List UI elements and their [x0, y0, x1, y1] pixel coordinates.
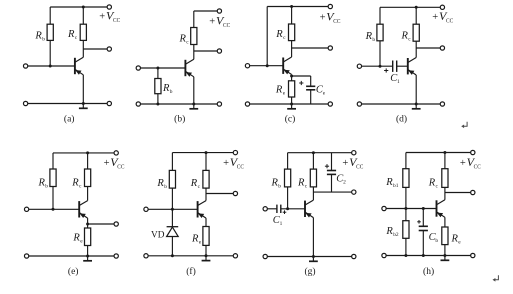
- svg-text:(g): (g): [304, 266, 315, 277]
- svg-text:(c): (c): [285, 114, 296, 125]
- svg-text:b: b: [372, 37, 375, 43]
- svg-text:R: R: [156, 178, 164, 189]
- svg-text:+: +: [342, 158, 348, 169]
- svg-text:R: R: [190, 178, 198, 189]
- svg-text:R: R: [297, 178, 305, 189]
- svg-text:c: c: [408, 37, 411, 43]
- svg-text:b: b: [164, 184, 167, 190]
- svg-text:+: +: [320, 12, 326, 23]
- svg-text:CC: CC: [474, 164, 481, 171]
- svg-text:R: R: [72, 232, 80, 243]
- svg-text:+: +: [104, 158, 110, 169]
- svg-text:CC: CC: [113, 17, 120, 24]
- svg-text:R: R: [275, 29, 283, 40]
- svg-text:(h): (h): [423, 266, 434, 277]
- svg-text:CC: CC: [117, 164, 124, 171]
- svg-text:R: R: [71, 178, 79, 189]
- svg-text:b: b: [45, 184, 48, 190]
- svg-text:b: b: [435, 238, 438, 244]
- svg-text:CC: CC: [446, 18, 453, 25]
- svg-text:R: R: [275, 85, 283, 96]
- svg-text:e: e: [458, 239, 461, 245]
- svg-text:b: b: [42, 37, 45, 43]
- svg-text:R: R: [271, 178, 279, 189]
- svg-text:CC: CC: [237, 164, 244, 171]
- svg-text:c: c: [283, 35, 286, 41]
- svg-text:1: 1: [397, 79, 400, 85]
- svg-text:+: +: [209, 17, 215, 28]
- svg-text:+: +: [432, 12, 438, 23]
- svg-text:+: +: [460, 158, 466, 169]
- svg-text:R: R: [191, 233, 199, 244]
- svg-text:b2: b2: [393, 232, 399, 238]
- svg-text:b: b: [278, 184, 281, 190]
- svg-text:c: c: [79, 184, 82, 190]
- svg-text:R: R: [451, 233, 459, 244]
- svg-text:R: R: [162, 83, 170, 94]
- svg-text:R: R: [365, 31, 373, 42]
- svg-text:e: e: [323, 91, 326, 97]
- svg-text:+: +: [223, 158, 229, 169]
- svg-text:(b): (b): [174, 114, 185, 125]
- svg-text:VD: VD: [151, 231, 165, 241]
- svg-text:c: c: [75, 35, 78, 41]
- svg-text:(f): (f): [186, 266, 196, 277]
- svg-text:(d): (d): [396, 114, 407, 125]
- svg-text:e: e: [80, 238, 83, 244]
- svg-text:CC: CC: [333, 18, 340, 25]
- svg-text:R: R: [38, 178, 46, 189]
- svg-text:R: R: [385, 177, 393, 188]
- svg-text:b: b: [170, 89, 173, 95]
- svg-text:b1: b1: [393, 183, 399, 189]
- svg-text:e: e: [283, 91, 286, 97]
- svg-text:R: R: [67, 29, 75, 40]
- svg-text:R: R: [428, 178, 436, 189]
- svg-text:(e): (e): [68, 266, 79, 277]
- svg-text:R: R: [385, 226, 393, 237]
- svg-text:R: R: [179, 34, 187, 45]
- svg-text:(a): (a): [64, 114, 75, 125]
- svg-text:2: 2: [343, 180, 346, 186]
- svg-text:+: +: [99, 11, 105, 22]
- svg-text:R: R: [401, 31, 409, 42]
- svg-text:c: c: [305, 184, 308, 190]
- svg-text:CC: CC: [223, 22, 230, 29]
- svg-text:CC: CC: [356, 164, 363, 171]
- svg-text:e: e: [199, 239, 202, 245]
- svg-text:R: R: [34, 31, 42, 42]
- svg-text:c: c: [186, 40, 189, 46]
- svg-text:c: c: [198, 184, 201, 190]
- svg-text:1: 1: [280, 221, 283, 227]
- svg-text:c: c: [436, 184, 439, 190]
